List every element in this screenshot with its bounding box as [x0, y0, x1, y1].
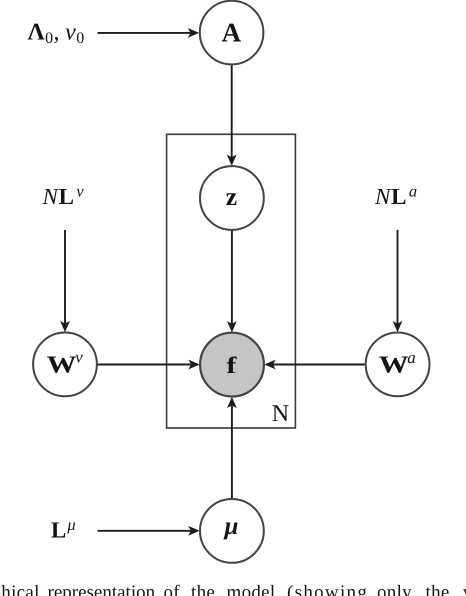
wire arrow NLa to Wa — [393, 230, 403, 332]
caption fragment at bottom (clipped) — [0, 582, 466, 596]
svg-text:a: a — [407, 348, 416, 367]
wire arrow Wv to f — [97, 360, 200, 370]
node z — [200, 166, 264, 230]
svg-text:model: model — [227, 582, 276, 596]
svg-text:f: f — [226, 353, 238, 379]
svg-text:Λ0, ν0: Λ0, ν0 — [28, 19, 85, 47]
svg-text:z: z — [226, 182, 237, 211]
svg-text:A: A — [222, 18, 242, 48]
svg-text:μ: μ — [222, 513, 238, 540]
wire arrow Wa to f — [264, 360, 365, 370]
svg-text:(showing: (showing — [287, 582, 368, 596]
wire arrow Lambda0,nu0 to A — [98, 28, 200, 38]
svg-text:representation: representation — [48, 582, 156, 596]
plate rectangle N — [167, 134, 296, 428]
node mu — [200, 499, 264, 563]
node Wv — [33, 333, 97, 397]
wire arrow Lmu to mu — [98, 526, 200, 536]
node A — [200, 1, 264, 65]
svg-text:W: W — [379, 352, 410, 379]
svg-text:W: W — [47, 352, 78, 379]
svg-text:of: of — [164, 582, 181, 596]
svg-text:the: the — [191, 582, 215, 596]
node f (observed, shaded) — [200, 333, 264, 397]
svg-text:v: v — [75, 347, 83, 366]
wire arrow NLv to Wv — [60, 230, 70, 332]
svg-text:phical: phical — [0, 582, 40, 596]
wire arrow A to z — [227, 64, 237, 166]
svg-text:N: N — [272, 401, 289, 427]
svg-text:only: only — [377, 582, 412, 596]
wire arrow mu to f — [227, 397, 237, 499]
node Wa — [366, 333, 430, 397]
svg-text:the: the — [426, 582, 450, 596]
wire arrow z to f — [227, 230, 237, 333]
